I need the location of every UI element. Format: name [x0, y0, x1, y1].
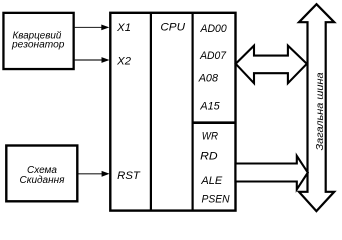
divider: pin column / CPU [150, 13, 152, 211]
system bus arrow (Загальна шина) [299, 4, 334, 211]
svg-text:резонатор: резонатор [11, 40, 65, 51]
arrowhead into X1 [101, 25, 109, 31]
wire: quartz to X1 [75, 26, 103, 28]
svg-text:AD00: AD00 [200, 23, 228, 35]
svg-text:PSEN: PSEN [202, 194, 230, 206]
divider: CPU / right column [192, 13, 194, 211]
data/address double arrow between CPU and bus [236, 46, 307, 84]
control signals arrow to bus [236, 156, 308, 190]
svg-text:ALE: ALE [200, 175, 222, 187]
arrowhead into X2 [102, 57, 110, 63]
svg-text:RST: RST [117, 170, 141, 182]
svg-text:AD07: AD07 [199, 50, 227, 62]
arrowhead into RST [102, 171, 110, 177]
block: quartz resonator (Кварцевий резонатор) [3, 13, 73, 69]
divider: address box / control box [193, 121, 236, 124]
svg-text:WR: WR [202, 131, 218, 143]
svg-text:A15: A15 [199, 101, 220, 113]
wire: reset to RST [79, 173, 103, 175]
svg-text:RD: RD [200, 150, 217, 162]
svg-text:A08: A08 [198, 73, 219, 85]
svg-text:CPU: CPU [160, 22, 185, 34]
svg-text:X1: X1 [116, 22, 131, 34]
CPU block outline [110, 13, 235, 211]
wire: quartz to X2 [75, 59, 103, 61]
svg-text:Загальна шина: Загальна шина [315, 72, 326, 150]
block: reset circuit (Схема Скидання) [6, 146, 77, 202]
svg-text:X2: X2 [116, 55, 131, 67]
svg-text:Скидання: Скидання [20, 175, 66, 186]
